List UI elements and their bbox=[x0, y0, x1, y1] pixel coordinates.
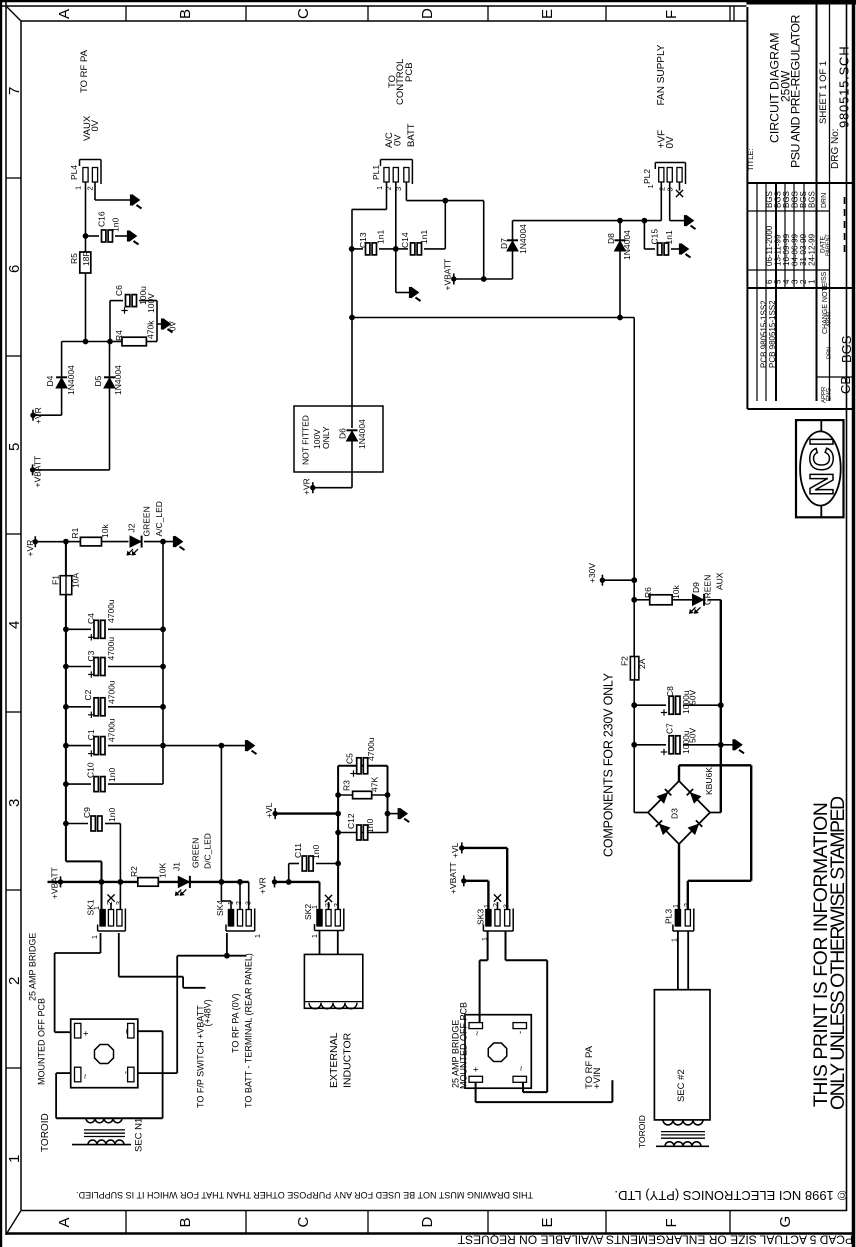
svg-text:D: D bbox=[419, 8, 436, 19]
svg-text:1n0: 1n0 bbox=[107, 768, 117, 782]
svg-text:1n0: 1n0 bbox=[107, 808, 117, 822]
svg-text:+VBATT: +VBATT bbox=[448, 862, 458, 894]
svg-text:7: 7 bbox=[6, 87, 23, 95]
svg-text:+VR: +VR bbox=[33, 407, 43, 424]
svg-text:E: E bbox=[539, 1217, 556, 1227]
svg-text:R4: R4 bbox=[114, 330, 124, 341]
svg-text:2: 2 bbox=[384, 186, 393, 190]
svg-text:C12: C12 bbox=[346, 813, 356, 829]
svg-text:C3: C3 bbox=[86, 650, 96, 661]
svg-text:R5: R5 bbox=[69, 253, 79, 264]
svg-text:1: 1 bbox=[646, 184, 655, 188]
svg-text:C5: C5 bbox=[345, 753, 355, 764]
svg-text:+: + bbox=[471, 1067, 481, 1072]
svg-text:1: 1 bbox=[312, 934, 319, 938]
svg-text:1: 1 bbox=[6, 1155, 23, 1163]
svg-text:PCB: PCB bbox=[404, 62, 415, 82]
svg-text:C8: C8 bbox=[665, 686, 675, 697]
svg-text:ENG: ENG bbox=[827, 388, 833, 401]
svg-text:1: 1 bbox=[484, 904, 491, 908]
svg-text:10K: 10K bbox=[158, 863, 168, 878]
svg-text:1n0: 1n0 bbox=[110, 218, 120, 232]
svg-text:AUX: AUX bbox=[715, 572, 725, 590]
svg-text:ISS: ISS bbox=[821, 271, 828, 283]
svg-text:3: 3 bbox=[6, 799, 23, 807]
svg-text:3: 3 bbox=[504, 904, 511, 908]
svg-text:SK3: SK3 bbox=[476, 909, 486, 925]
svg-text:4700u: 4700u bbox=[107, 718, 117, 742]
svg-text:B: B bbox=[177, 9, 194, 19]
svg-text:3: 3 bbox=[334, 903, 341, 907]
svg-text:PCB 980515-1SS2: PCB 980515-1SS2 bbox=[768, 300, 777, 368]
svg-text:ONLY: ONLY bbox=[321, 426, 331, 449]
svg-text:MOUNTED OFF PCB: MOUNTED OFF PCB bbox=[37, 998, 47, 1085]
svg-text:1: 1 bbox=[671, 938, 678, 942]
svg-text:+VR: +VR bbox=[25, 540, 35, 557]
svg-text:PSU AND PRE-REGULATOR: PSU AND PRE-REGULATOR bbox=[789, 15, 803, 168]
svg-text:THIS DRAWING MUST NOT BE USED: THIS DRAWING MUST NOT BE USED FOR ANY PU… bbox=[76, 1190, 533, 1200]
svg-text:EXTERNAL: EXTERNAL bbox=[328, 1032, 340, 1088]
svg-text:E: E bbox=[539, 9, 556, 19]
svg-text:J1: J1 bbox=[172, 862, 182, 871]
svg-text:SEC #2: SEC #2 bbox=[676, 1069, 687, 1102]
svg-text:6: 6 bbox=[6, 265, 23, 273]
svg-text:D4: D4 bbox=[45, 375, 55, 386]
svg-text:F: F bbox=[663, 10, 680, 19]
svg-text:+: + bbox=[81, 1031, 91, 1036]
svg-text:A/C_LED: A/C_LED bbox=[154, 501, 164, 536]
svg-text:25 AMP BRIDGE: 25 AMP BRIDGE bbox=[28, 933, 38, 1001]
svg-text:2: 2 bbox=[493, 903, 500, 907]
svg-text:© 1998 NCI ELECTRONICS (PTY): © 1998 NCI ELECTRONICS (PTY) LTD. bbox=[614, 1188, 847, 1203]
svg-text:F2: F2 bbox=[620, 656, 630, 666]
svg-text:R6: R6 bbox=[643, 587, 653, 598]
svg-text:DRG No:: DRG No: bbox=[830, 128, 841, 169]
svg-text:C9: C9 bbox=[82, 807, 92, 818]
svg-text:4700u: 4700u bbox=[106, 599, 116, 623]
svg-text:1n0: 1n0 bbox=[311, 845, 321, 859]
svg-text:2: 2 bbox=[85, 186, 94, 190]
svg-text:NCI: NCI bbox=[803, 436, 840, 496]
svg-text:-: - bbox=[121, 1071, 131, 1074]
svg-text:PCAD 5 ACTUAL SIZE OR ENL: PCAD 5 ACTUAL SIZE OR ENLARGEMENTS AVAIL… bbox=[457, 1233, 853, 1247]
svg-text:D9: D9 bbox=[691, 582, 701, 593]
svg-text:ONLY UNLESS OTHERWISE STAMPED: ONLY UNLESS OTHERWISE STAMPED bbox=[827, 796, 849, 1110]
svg-text:50V: 50V bbox=[688, 728, 698, 743]
svg-text:2A: 2A bbox=[637, 658, 647, 669]
svg-text:2: 2 bbox=[236, 901, 243, 905]
svg-text:TO RF PA: TO RF PA bbox=[79, 49, 90, 93]
svg-text:+VIN: +VIN bbox=[592, 1067, 603, 1089]
svg-text:1N4004: 1N4004 bbox=[113, 365, 123, 395]
svg-text:3: 3 bbox=[116, 901, 123, 905]
svg-text:4700u: 4700u bbox=[106, 637, 116, 661]
svg-text:1: 1 bbox=[808, 279, 817, 284]
svg-text:CB: CB bbox=[838, 376, 853, 394]
svg-text:FAN SUPPLY: FAN SUPPLY bbox=[656, 44, 667, 105]
svg-text:10k: 10k bbox=[671, 585, 681, 599]
svg-text:TO BATT - TERMINAL (REAR PANEL: TO BATT - TERMINAL (REAR PANEL) bbox=[244, 953, 254, 1108]
svg-text:GREEN: GREEN bbox=[703, 575, 713, 605]
svg-text:C: C bbox=[295, 8, 312, 19]
svg-text:980515.SCH: 980515.SCH bbox=[837, 46, 852, 128]
svg-text:+VBATT: +VBATT bbox=[49, 867, 59, 899]
svg-text:C13: C13 bbox=[358, 232, 368, 248]
svg-text:R2: R2 bbox=[129, 866, 139, 877]
svg-text:DRN: DRN bbox=[827, 347, 833, 359]
svg-text:1: 1 bbox=[482, 937, 489, 941]
svg-text:0V: 0V bbox=[90, 119, 101, 131]
svg-text:BATT: BATT bbox=[406, 123, 417, 147]
svg-text:G: G bbox=[777, 1216, 794, 1228]
svg-text:F1: F1 bbox=[50, 575, 60, 585]
svg-text:1n1: 1n1 bbox=[664, 230, 674, 244]
svg-text:C11: C11 bbox=[293, 843, 303, 858]
svg-text:C: C bbox=[295, 1217, 312, 1228]
svg-text:~: ~ bbox=[80, 1074, 90, 1079]
svg-text:4: 4 bbox=[6, 621, 23, 629]
svg-text:PL2: PL2 bbox=[642, 169, 652, 184]
svg-text:2: 2 bbox=[6, 977, 23, 985]
svg-text:-: - bbox=[515, 1031, 525, 1034]
svg-text:4700u: 4700u bbox=[107, 680, 117, 704]
svg-text:0V: 0V bbox=[665, 136, 676, 149]
svg-text:SK4: SK4 bbox=[215, 900, 225, 916]
svg-text:1N4004: 1N4004 bbox=[622, 230, 632, 260]
svg-text:+VR: +VR bbox=[258, 877, 268, 894]
svg-text:1: 1 bbox=[73, 186, 82, 190]
svg-text:D3: D3 bbox=[670, 808, 680, 819]
svg-text:C14: C14 bbox=[400, 232, 410, 248]
svg-text:50V: 50V bbox=[688, 690, 698, 705]
svg-text:PL4: PL4 bbox=[69, 165, 79, 180]
svg-text:1: 1 bbox=[312, 905, 319, 909]
svg-text:A: A bbox=[56, 9, 73, 19]
svg-text:3: 3 bbox=[394, 187, 403, 191]
svg-text:C4: C4 bbox=[86, 613, 96, 624]
svg-text:~: ~ bbox=[122, 1029, 132, 1034]
svg-text:D5: D5 bbox=[93, 375, 103, 386]
svg-text:24-12-99: 24-12-99 bbox=[808, 233, 817, 266]
svg-text:~: ~ bbox=[516, 1066, 526, 1071]
svg-text:C16: C16 bbox=[97, 211, 107, 227]
svg-text:+VBATT: +VBATT bbox=[33, 456, 43, 488]
svg-text:TITLE:: TITLE: bbox=[746, 148, 755, 171]
svg-text:D/C_LED: D/C_LED bbox=[202, 833, 212, 869]
svg-text:A: A bbox=[56, 1217, 73, 1227]
svg-text:100V: 100V bbox=[146, 293, 156, 313]
svg-text:KBU6K: KBU6K bbox=[704, 767, 714, 795]
svg-text:D: D bbox=[419, 1217, 436, 1228]
svg-text:PCB 980515-1SS2: PCB 980515-1SS2 bbox=[760, 300, 769, 368]
svg-text:18R: 18R bbox=[81, 250, 91, 266]
svg-text:TOROID: TOROID bbox=[637, 1115, 647, 1148]
svg-text:C6: C6 bbox=[114, 285, 124, 296]
svg-text:1n1: 1n1 bbox=[376, 230, 386, 244]
svg-text:1N4004: 1N4004 bbox=[357, 419, 367, 449]
svg-text:+VL: +VL bbox=[450, 842, 460, 858]
svg-text:47K: 47K bbox=[369, 777, 379, 792]
svg-text:BGS: BGS bbox=[808, 191, 817, 208]
svg-text:1: 1 bbox=[673, 904, 680, 908]
svg-text:J2: J2 bbox=[127, 523, 137, 532]
svg-text:4700u: 4700u bbox=[366, 737, 376, 761]
svg-text:10k: 10k bbox=[100, 524, 110, 538]
svg-text:F: F bbox=[663, 1218, 680, 1227]
svg-text:PL1: PL1 bbox=[371, 165, 381, 180]
svg-text:~: ~ bbox=[472, 1031, 482, 1036]
svg-text:GREEN: GREEN bbox=[191, 838, 201, 868]
svg-text:D7: D7 bbox=[499, 238, 509, 249]
svg-text:GREEN: GREEN bbox=[142, 506, 152, 536]
svg-text:10A: 10A bbox=[71, 573, 81, 588]
svg-text:B: B bbox=[177, 1217, 194, 1227]
svg-text:DRN: DRN bbox=[821, 193, 828, 208]
svg-text:1n0: 1n0 bbox=[365, 819, 375, 833]
svg-text:1: 1 bbox=[375, 186, 384, 190]
svg-text:MOUNTED OFF PCB: MOUNTED OFF PCB bbox=[459, 1002, 469, 1089]
svg-text:PARENT: PARENT bbox=[826, 233, 832, 256]
svg-text:2: 2 bbox=[325, 903, 332, 907]
svg-text:C2: C2 bbox=[83, 689, 93, 700]
svg-text:1: 1 bbox=[92, 935, 99, 939]
svg-text:1N4004: 1N4004 bbox=[518, 224, 528, 254]
svg-text:3: 3 bbox=[666, 187, 675, 191]
svg-text:2: 2 bbox=[684, 903, 691, 907]
svg-text:PL3: PL3 bbox=[664, 909, 674, 924]
svg-text:+VBATT: +VBATT bbox=[443, 259, 453, 291]
svg-text:C7: C7 bbox=[664, 723, 674, 734]
svg-text:+VR: +VR bbox=[301, 478, 311, 495]
svg-text:SHEET 1 OF 1: SHEET 1 OF 1 bbox=[818, 61, 829, 124]
svg-text:C1: C1 bbox=[86, 729, 96, 740]
svg-text:C10: C10 bbox=[86, 762, 96, 778]
svg-text:TO RF PA (0V): TO RF PA (0V) bbox=[231, 993, 241, 1053]
svg-text:C15: C15 bbox=[650, 229, 660, 245]
svg-text:R1: R1 bbox=[70, 527, 80, 538]
svg-text:5: 5 bbox=[6, 443, 23, 451]
svg-text:APPR: APPR bbox=[827, 312, 833, 327]
svg-text:1: 1 bbox=[228, 901, 235, 905]
svg-text:1n1: 1n1 bbox=[419, 230, 429, 244]
svg-text:2: 2 bbox=[107, 901, 114, 905]
svg-text:+30V: +30V bbox=[587, 563, 597, 583]
svg-text:BGS: BGS bbox=[839, 335, 854, 363]
svg-text:1N4004: 1N4004 bbox=[66, 365, 76, 395]
svg-text:(+48V): (+48V) bbox=[203, 999, 213, 1026]
svg-text:R3: R3 bbox=[341, 780, 351, 791]
svg-text:0V: 0V bbox=[168, 321, 177, 331]
svg-text:1: 1 bbox=[255, 934, 262, 938]
svg-text:TOROID: TOROID bbox=[40, 1113, 51, 1152]
svg-text:D6: D6 bbox=[338, 428, 348, 439]
svg-text:3: 3 bbox=[246, 901, 253, 905]
svg-text:SEC N1: SEC N1 bbox=[134, 1118, 145, 1152]
svg-text:1: 1 bbox=[94, 906, 101, 910]
svg-text:COMPONENTS FOR 230V ONLY: COMPONENTS FOR 230V ONLY bbox=[602, 672, 616, 857]
svg-text:NOT FITTED: NOT FITTED bbox=[301, 415, 311, 465]
svg-text:470k: 470k bbox=[146, 320, 156, 339]
svg-text:0V: 0V bbox=[392, 134, 403, 146]
svg-text:+VL: +VL bbox=[264, 802, 274, 818]
svg-text:INDUCTOR: INDUCTOR bbox=[342, 1032, 354, 1088]
svg-text:D8: D8 bbox=[606, 233, 616, 244]
